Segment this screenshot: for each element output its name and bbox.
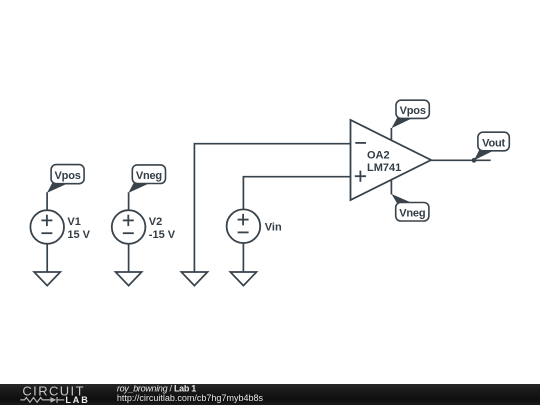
wire V1 bottom pin [46, 244, 48, 272]
svg-text:OA2: OA2 [367, 150, 390, 162]
svg-text:Vin: Vin [265, 221, 282, 233]
svg-text:LM741: LM741 [367, 162, 401, 174]
svg-text:V2: V2 [149, 216, 162, 228]
svg-text:LAB: LAB [65, 395, 89, 405]
svg-text:V1: V1 [67, 216, 80, 228]
node flag Vpos at V1 [47, 165, 84, 193]
svg-text:Vneg: Vneg [399, 207, 425, 219]
ground on inverting input net [181, 272, 207, 286]
footer bar [0, 384, 540, 405]
svg-text:http://circuitlab.com/cb7hg7my: http://circuitlab.com/cb7hg7myb4b8s [117, 393, 264, 403]
node flag Vout [474, 132, 509, 160]
ground below V1 [34, 272, 60, 286]
wire V2 top pin [128, 192, 130, 210]
CircuitLab logo resistor-diode symbol [20, 397, 64, 403]
wire V1 top pin [46, 192, 48, 210]
svg-text:Vpos: Vpos [55, 170, 81, 182]
node flag Vpos at OA2 supply [392, 100, 430, 128]
op-amp OA2 LM741 [351, 120, 432, 200]
wire Vin bottom pin [242, 243, 244, 272]
ground below V2 [116, 272, 142, 286]
wire OA2 negative supply pin [390, 180, 392, 195]
svg-text:roy_browning / Lab 1: roy_browning / Lab 1 [117, 383, 196, 393]
junction on output net [472, 158, 477, 163]
voltage source Vin [227, 209, 261, 243]
label V1 value 15 V [67, 216, 90, 241]
node flag Vneg at OA2 supply [392, 194, 429, 221]
wire inverting input net to ground [194, 144, 350, 272]
svg-text:Vout: Vout [482, 138, 505, 150]
svg-text:Vpos: Vpos [400, 105, 426, 117]
ground below Vin [230, 272, 256, 286]
voltage source V2 [112, 210, 146, 244]
svg-text:-15 V: -15 V [149, 229, 176, 241]
label V2 value -15 V [149, 216, 176, 241]
svg-text:15 V: 15 V [67, 229, 90, 241]
svg-text:Vneg: Vneg [136, 170, 162, 182]
wire OA2 output [431, 159, 491, 161]
node flag Vneg at V2 [128, 165, 165, 193]
wire non-inverting input net from Vin [243, 177, 350, 210]
wire V2 bottom pin [128, 244, 130, 272]
voltage source V1 [30, 210, 64, 244]
wire OA2 positive supply pin [390, 128, 392, 141]
